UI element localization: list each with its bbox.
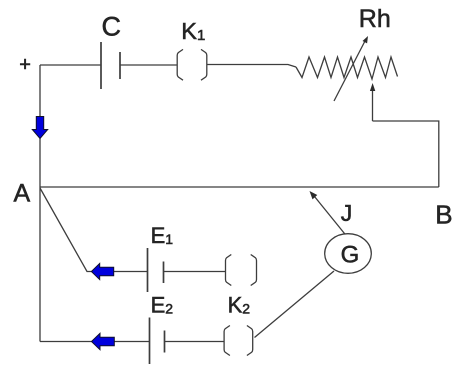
galvanometer G bbox=[325, 234, 372, 274]
plug key K2 gap2 bbox=[224, 326, 253, 356]
svg-text:G: G bbox=[341, 241, 360, 268]
wire: cell E1 to key K2 gap1 bbox=[164, 271, 226, 273]
rheostat diagonal arrow bbox=[334, 36, 368, 101]
svg-text:+: + bbox=[19, 54, 31, 76]
cell E2 bbox=[150, 318, 165, 365]
wire: top-left corner to cell C bbox=[40, 64, 101, 66]
current arrow E1 branch (blue, pointing left) bbox=[91, 263, 113, 279]
current arrow E2 branch (blue, pointing left) bbox=[92, 333, 115, 349]
wire: key K1 to rheostat bbox=[207, 65, 296, 68]
potentiometer wire AB bbox=[40, 186, 439, 188]
svg-text:Rh: Rh bbox=[359, 5, 391, 33]
svg-text:K1: K1 bbox=[181, 18, 205, 44]
current arrow (blue, pointing down) bbox=[32, 117, 47, 139]
svg-text:K2: K2 bbox=[228, 293, 251, 318]
wire: bottom branch from left vertical to cell E2 bbox=[40, 341, 150, 343]
svg-text:B: B bbox=[435, 200, 452, 230]
svg-text:C: C bbox=[102, 12, 122, 42]
svg-text:J: J bbox=[341, 200, 353, 226]
svg-text:A: A bbox=[14, 180, 31, 208]
wire: cell E2 to key K2 gap2 bbox=[165, 341, 224, 343]
rheostat Rh zigzag bbox=[296, 57, 398, 79]
wire: cell C to key K1 bbox=[120, 64, 177, 66]
wire: galvanometer G to key K2 gap2 bbox=[255, 271, 335, 338]
wiper tap arrow bbox=[370, 83, 375, 121]
wire: wiper tap to B corner bbox=[373, 121, 439, 187]
wire: A diagonal to E1 branch bbox=[40, 188, 148, 272]
plug key K2 gap1 bbox=[226, 255, 257, 286]
svg-text:E1: E1 bbox=[151, 223, 174, 248]
cell E1 bbox=[148, 248, 164, 292]
wire: left vertical from + corner down through A bbox=[39, 65, 41, 342]
svg-text:E2: E2 bbox=[151, 293, 174, 318]
plug key K1 bbox=[177, 49, 207, 80]
cell C bbox=[101, 42, 120, 89]
jockey J line with arrowhead bbox=[310, 191, 347, 236]
